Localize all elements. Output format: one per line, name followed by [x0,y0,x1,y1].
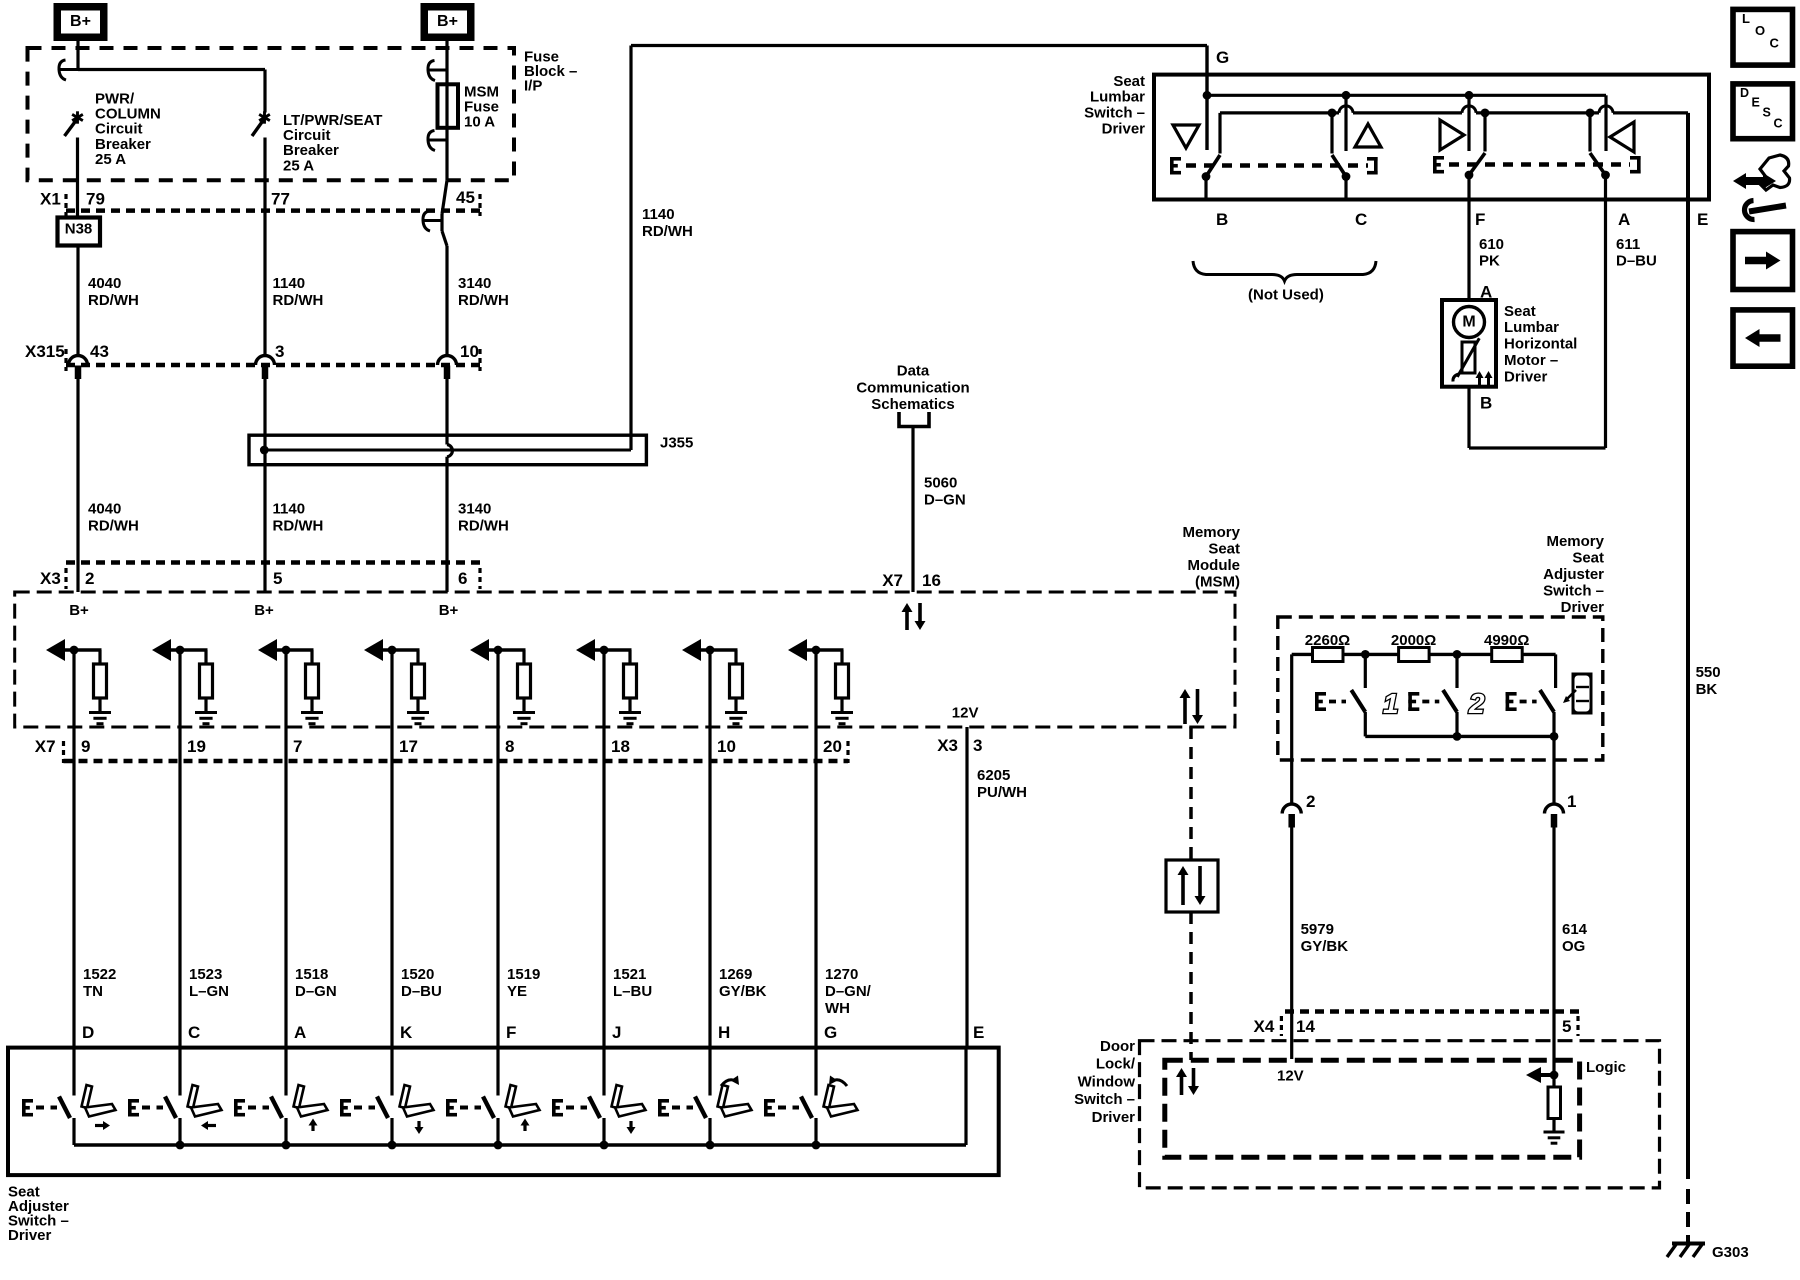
svg-text:8: 8 [505,737,514,756]
svg-text:Driver: Driver [1504,368,1548,385]
svg-text:D–GN: D–GN [295,983,337,1000]
svg-text:Switch –: Switch – [1074,1091,1135,1108]
svg-text:WH: WH [825,1000,850,1017]
svg-text:Communication: Communication [856,379,969,396]
svg-text:Schematics: Schematics [871,396,954,413]
svg-text:5060: 5060 [924,475,957,492]
svg-text:Driver: Driver [1561,599,1605,616]
svg-text:6205: 6205 [977,767,1010,784]
svg-text:9: 9 [81,737,90,756]
svg-text:20: 20 [823,737,842,756]
svg-text:L: L [1742,11,1750,26]
svg-text:4040: 4040 [88,275,121,292]
svg-text:D–GN/: D–GN/ [825,983,872,1000]
svg-text:5979: 5979 [1301,921,1334,938]
svg-text:X315: X315 [25,342,65,361]
svg-text:45: 45 [456,188,475,207]
svg-text:B+: B+ [69,602,89,619]
svg-text:5: 5 [273,569,282,588]
svg-text:RD/WH: RD/WH [273,292,324,309]
svg-text:X4: X4 [1254,1017,1275,1036]
svg-text:YE: YE [507,983,527,1000]
svg-text:10 A: 10 A [464,113,495,130]
svg-text:43: 43 [90,342,109,361]
svg-text:GY/BK: GY/BK [1301,938,1349,955]
svg-text:3: 3 [973,736,982,755]
svg-text:L–GN: L–GN [189,983,229,1000]
svg-text:79: 79 [86,190,105,209]
svg-text:D: D [82,1023,94,1042]
svg-text:GY/BK: GY/BK [719,983,767,1000]
svg-text:2: 2 [85,569,94,588]
svg-text:1520: 1520 [401,966,434,983]
svg-text:19: 19 [187,737,206,756]
svg-text:17: 17 [399,737,418,756]
svg-text:X3: X3 [40,569,61,588]
svg-text:14: 14 [1296,1017,1315,1036]
svg-text:3140: 3140 [458,275,491,292]
svg-text:J: J [612,1023,621,1042]
svg-text:B: B [1216,210,1228,229]
svg-text:B: B [1480,394,1492,413]
svg-text:X1: X1 [40,190,61,209]
svg-text:B+: B+ [70,13,91,30]
svg-text:PU/WH: PU/WH [977,784,1027,801]
svg-text:1: 1 [1383,688,1399,719]
svg-text:G303: G303 [1712,1244,1749,1261]
svg-text:C: C [1774,117,1783,131]
svg-text:Lumbar: Lumbar [1504,319,1559,336]
svg-text:Lumbar: Lumbar [1090,89,1145,106]
svg-text:BK: BK [1696,681,1718,698]
svg-text:Seat: Seat [1113,73,1145,90]
svg-text:(MSM): (MSM) [1195,573,1240,590]
svg-text:7: 7 [293,737,302,756]
svg-text:2: 2 [1306,792,1315,811]
svg-text:D: D [1740,86,1749,100]
svg-text:1: 1 [1567,792,1576,811]
svg-text:C: C [188,1023,200,1042]
svg-text:18: 18 [611,737,630,756]
svg-text:PK: PK [1479,253,1500,270]
svg-text:Module: Module [1188,557,1241,574]
svg-text:O: O [1755,23,1765,38]
svg-text:F: F [506,1023,516,1042]
svg-text:C: C [1770,35,1780,50]
svg-text:N38: N38 [65,220,93,237]
svg-text:RD/WH: RD/WH [273,517,324,534]
svg-text:77: 77 [271,190,290,209]
svg-text:2260Ω: 2260Ω [1305,632,1350,649]
svg-text:D–BU: D–BU [1616,253,1657,270]
svg-text:B+: B+ [439,602,459,619]
svg-text:Switch –: Switch – [1084,105,1145,122]
svg-text:12V: 12V [1277,1068,1304,1085]
svg-text:J355: J355 [660,434,693,451]
svg-text:4040: 4040 [88,500,121,517]
svg-text:1519: 1519 [507,966,540,983]
svg-text:4990Ω: 4990Ω [1484,632,1529,649]
svg-text:10: 10 [460,342,479,361]
svg-text:1521: 1521 [613,966,646,983]
svg-text:12V: 12V [952,705,979,722]
svg-text:M: M [1462,314,1475,331]
svg-text:A: A [294,1023,306,1042]
svg-text:RD/WH: RD/WH [642,223,693,240]
svg-text:Logic: Logic [1586,1059,1626,1076]
svg-text:G: G [824,1023,837,1042]
svg-text:Driver: Driver [1092,1109,1136,1126]
svg-text:Motor –: Motor – [1504,352,1558,369]
svg-text:K: K [400,1023,413,1042]
svg-text:10: 10 [717,737,736,756]
svg-text:B+: B+ [254,602,274,619]
svg-text:1140: 1140 [273,275,306,292]
svg-text:550: 550 [1696,664,1721,681]
svg-text:25 A: 25 A [283,157,314,174]
svg-text:2: 2 [1468,688,1485,719]
svg-text:Seat: Seat [1208,540,1240,557]
svg-text:611: 611 [1616,236,1640,253]
svg-text:Adjuster: Adjuster [1543,566,1604,583]
svg-text:RD/WH: RD/WH [458,517,509,534]
svg-text:C: C [1355,210,1367,229]
svg-text:A: A [1618,210,1630,229]
svg-text:1269: 1269 [719,966,752,983]
svg-text:TN: TN [83,983,103,1000]
svg-text:D–BU: D–BU [401,983,442,1000]
svg-text:1140: 1140 [273,500,306,517]
svg-text:Seat: Seat [1572,549,1604,566]
svg-text:Driver: Driver [8,1227,52,1244]
svg-text:RD/WH: RD/WH [88,517,139,534]
svg-text:3140: 3140 [458,500,491,517]
svg-text:610: 610 [1479,236,1504,253]
svg-text:I/P: I/P [524,78,542,95]
svg-text:1518: 1518 [295,966,328,983]
svg-text:25 A: 25 A [95,151,126,168]
svg-text:2000Ω: 2000Ω [1391,632,1436,649]
svg-text:F: F [1475,210,1485,229]
svg-text:Switch –: Switch – [1543,583,1604,600]
svg-text:H: H [718,1023,730,1042]
svg-text:Lock/: Lock/ [1096,1056,1136,1073]
svg-text:RD/WH: RD/WH [88,292,139,309]
svg-text:Window: Window [1078,1073,1136,1090]
svg-text:Driver: Driver [1102,121,1146,138]
svg-text:G: G [1216,48,1229,67]
svg-text:Memory: Memory [1546,533,1604,550]
svg-text:16: 16 [922,571,941,590]
svg-text:Data: Data [897,363,930,380]
svg-text:1522: 1522 [83,966,116,983]
svg-text:3: 3 [275,342,284,361]
svg-text:X3: X3 [937,736,958,755]
svg-text:Seat: Seat [1504,303,1536,320]
svg-text:1140: 1140 [642,206,675,223]
svg-text:E: E [973,1023,984,1042]
svg-text:E: E [1752,96,1760,110]
svg-text:S: S [1763,106,1771,120]
svg-text:(Not Used): (Not Used) [1248,286,1324,303]
svg-text:1270: 1270 [825,966,858,983]
svg-text:D–GN: D–GN [924,492,966,509]
svg-text:1523: 1523 [189,966,222,983]
svg-text:L–BU: L–BU [613,983,652,1000]
svg-text:RD/WH: RD/WH [458,292,509,309]
svg-text:614: 614 [1562,921,1588,938]
svg-text:Horizontal: Horizontal [1504,336,1577,353]
svg-text:X7: X7 [35,737,56,756]
svg-text:OG: OG [1562,938,1585,955]
svg-text:E: E [1697,210,1708,229]
svg-text:Door: Door [1100,1038,1135,1055]
svg-text:Memory: Memory [1182,524,1240,541]
svg-text:6: 6 [458,569,467,588]
svg-text:B+: B+ [437,13,458,30]
svg-text:X7: X7 [882,571,903,590]
svg-text:5: 5 [1562,1017,1571,1036]
